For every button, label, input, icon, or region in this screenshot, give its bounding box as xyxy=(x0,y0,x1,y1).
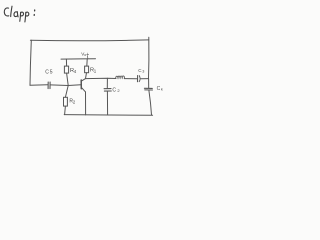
title "Clapp:" xyxy=(4,6,34,22)
svg-text:5: 5 xyxy=(50,70,53,76)
wire emitter down xyxy=(85,92,87,115)
wire left edge xyxy=(30,40,31,85)
wire R2 to ground rail xyxy=(64,106,67,114)
node V+ rail xyxy=(61,58,96,60)
wire right edge lower xyxy=(149,90,152,115)
svg-text:k: k xyxy=(161,86,163,91)
capacitor Ck xyxy=(144,87,152,89)
net label V+ xyxy=(81,52,89,58)
wire R1 to collector node xyxy=(86,73,87,79)
wire V+ tick xyxy=(87,56,89,59)
svg-text:3: 3 xyxy=(142,69,144,73)
wire C2 to ground rail xyxy=(106,91,108,115)
transistor Q1 xyxy=(80,80,82,89)
resistor R2 xyxy=(64,97,68,106)
svg-text:C: C xyxy=(112,87,116,93)
wire bottom rail xyxy=(64,114,152,117)
capacitor C2 xyxy=(106,78,108,88)
resistor R1 xyxy=(85,66,89,73)
wire base line right xyxy=(51,84,81,87)
wire base line left xyxy=(30,84,48,87)
inductor L xyxy=(116,76,125,79)
wire R4 to base node xyxy=(67,73,69,85)
wire collector to tank xyxy=(85,77,116,79)
wire right edge mid xyxy=(148,79,150,88)
wire base node to R2 xyxy=(65,86,68,98)
wire right edge upper xyxy=(148,37,150,78)
capacitor C5 xyxy=(47,82,49,89)
svg-text:C: C xyxy=(45,69,49,75)
wire C3 to right edge xyxy=(140,78,148,80)
wire inductor to C3 xyxy=(124,78,137,80)
resistor R4 xyxy=(64,66,68,73)
wire top edge xyxy=(30,39,148,42)
capacitor C3 xyxy=(137,76,139,82)
wire V+ to R1 xyxy=(86,59,88,66)
wire V+ to R4 xyxy=(65,59,67,66)
